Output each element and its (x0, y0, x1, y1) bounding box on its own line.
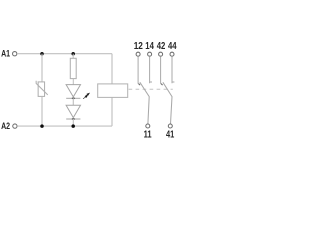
diode D2 (66, 105, 80, 119)
mechanical linkage dashed (129, 88, 173, 90)
svg-text:11: 11 (144, 129, 152, 140)
terminal 11 (146, 124, 150, 128)
wire varistor branch upper (41, 54, 43, 82)
wire between diodes (72, 98, 74, 105)
wire coil feed down (111, 54, 113, 84)
node junction diode bottom (71, 124, 75, 128)
wire NC fixed contact 12 (138, 56, 140, 85)
LED D1 light arrows (83, 93, 89, 99)
terminal 12 (136, 52, 140, 56)
terminal 42 (159, 52, 163, 56)
wire NC fixed contact 42 (161, 56, 163, 85)
relay coil K1 (98, 84, 128, 98)
node junction varistor bottom (40, 124, 44, 128)
varistor RV1 (36, 81, 48, 97)
svg-text:A2: A2 (1, 121, 10, 132)
wire diode to A2 rail (72, 119, 74, 126)
node junction resistor top (71, 52, 75, 56)
wire A1 rail (17, 53, 112, 55)
wire A2 rail (17, 125, 112, 127)
terminal 14 (148, 52, 152, 56)
contact lever 41 (163, 82, 172, 124)
terminal 41 (168, 124, 172, 128)
wire NO fixed contact 14 (150, 56, 152, 83)
svg-text:44: 44 (168, 41, 177, 52)
LED D1 (66, 85, 80, 99)
terminal 44 (170, 52, 174, 56)
node junction varistor top (40, 52, 44, 56)
svg-text:14: 14 (145, 41, 154, 52)
svg-text:41: 41 (166, 129, 175, 140)
wire coil return up (111, 98, 113, 127)
contact lever 11 (140, 82, 149, 124)
terminal A1 (13, 52, 17, 56)
wire varistor branch lower (41, 97, 43, 127)
svg-text:12: 12 (134, 41, 144, 52)
resistor R1 (70, 54, 76, 85)
terminal A2 (13, 124, 17, 128)
svg-text:42: 42 (157, 41, 166, 52)
svg-text:A1: A1 (1, 48, 10, 59)
wire NO fixed contact 44 (172, 56, 174, 83)
